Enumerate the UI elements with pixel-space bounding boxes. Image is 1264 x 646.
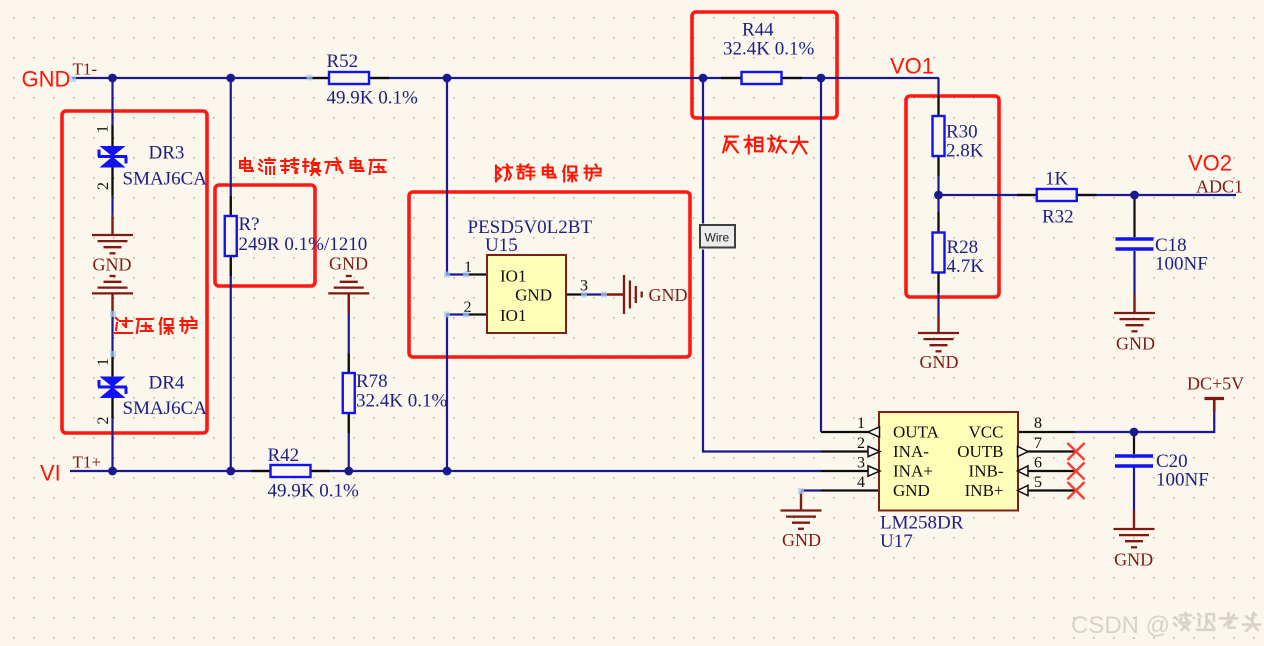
svg-text:3: 3: [857, 455, 865, 472]
svg-text:100NF: 100NF: [1155, 254, 1208, 275]
svg-text:GND: GND: [893, 481, 930, 500]
svg-text:1: 1: [95, 358, 112, 366]
svg-text:T1-: T1-: [73, 60, 98, 79]
svg-text:1: 1: [95, 125, 112, 133]
svg-text:4.7K: 4.7K: [947, 256, 985, 277]
svg-text:49.9K 0.1%: 49.9K 0.1%: [268, 481, 359, 502]
svg-text:OUTB: OUTB: [957, 442, 1003, 461]
svg-text:49.9K 0.1%: 49.9K 0.1%: [327, 88, 418, 109]
svg-text:R32: R32: [1042, 207, 1074, 228]
svg-text:R28: R28: [947, 237, 979, 258]
svg-text:R42: R42: [268, 445, 300, 466]
svg-text:INB-: INB-: [969, 462, 1004, 481]
svg-text:5: 5: [1034, 474, 1042, 491]
svg-text:VO1: VO1: [890, 54, 934, 79]
svg-text:Wire: Wire: [705, 231, 730, 245]
svg-text:100NF: 100NF: [1156, 470, 1209, 491]
svg-text:1K: 1K: [1045, 169, 1069, 190]
svg-text:ADC1: ADC1: [1196, 177, 1243, 197]
svg-text:4: 4: [857, 474, 865, 491]
svg-text:INA-: INA-: [893, 442, 929, 461]
svg-text:SMAJ6CA: SMAJ6CA: [123, 169, 208, 190]
svg-text:GND: GND: [329, 254, 368, 274]
svg-text:VCC: VCC: [969, 423, 1004, 442]
svg-text:SMAJ6CA: SMAJ6CA: [123, 398, 208, 419]
svg-text:OUTA: OUTA: [893, 423, 940, 442]
svg-text:2: 2: [857, 435, 865, 452]
svg-text:R78: R78: [356, 371, 388, 392]
svg-text:GND: GND: [649, 285, 688, 305]
svg-text:249R 0.1%/1210: 249R 0.1%/1210: [239, 234, 368, 255]
svg-text:DC+5V: DC+5V: [1187, 374, 1244, 394]
svg-text:U15: U15: [485, 235, 518, 256]
svg-text:T1+: T1+: [73, 453, 101, 472]
svg-text:1: 1: [857, 415, 865, 432]
svg-text:U17: U17: [880, 531, 913, 552]
svg-text:VO2: VO2: [1188, 151, 1232, 176]
svg-text:GND: GND: [1116, 334, 1155, 354]
svg-text:2: 2: [95, 182, 112, 190]
svg-text:8: 8: [1034, 415, 1042, 432]
svg-text:32.4K 0.1%: 32.4K 0.1%: [723, 39, 814, 60]
svg-text:7: 7: [1034, 435, 1042, 452]
svg-text:INA+: INA+: [893, 462, 933, 481]
svg-text:CSDN @: CSDN @: [1071, 612, 1170, 639]
svg-text:GND: GND: [515, 286, 552, 305]
svg-text:IO1: IO1: [500, 267, 526, 286]
svg-text:VI: VI: [40, 461, 61, 486]
svg-text:GND: GND: [93, 255, 132, 275]
svg-text:GND: GND: [1114, 550, 1153, 570]
svg-text:INB+: INB+: [965, 481, 1004, 500]
svg-text:6: 6: [1034, 455, 1042, 472]
svg-text:2: 2: [95, 417, 112, 425]
svg-text:R?: R?: [239, 214, 260, 235]
svg-text:R44: R44: [742, 20, 774, 41]
svg-text:R52: R52: [327, 51, 359, 72]
svg-text:DR3: DR3: [149, 143, 185, 164]
svg-text:IO1: IO1: [500, 306, 526, 325]
svg-text:R30: R30: [946, 122, 978, 143]
svg-text:2.8K: 2.8K: [946, 141, 984, 162]
svg-text:DR4: DR4: [149, 373, 185, 394]
svg-text:GND: GND: [782, 530, 821, 550]
svg-text:GND: GND: [920, 352, 959, 372]
svg-text:32.4K 0.1%: 32.4K 0.1%: [356, 391, 447, 412]
svg-text:GND: GND: [22, 67, 71, 92]
